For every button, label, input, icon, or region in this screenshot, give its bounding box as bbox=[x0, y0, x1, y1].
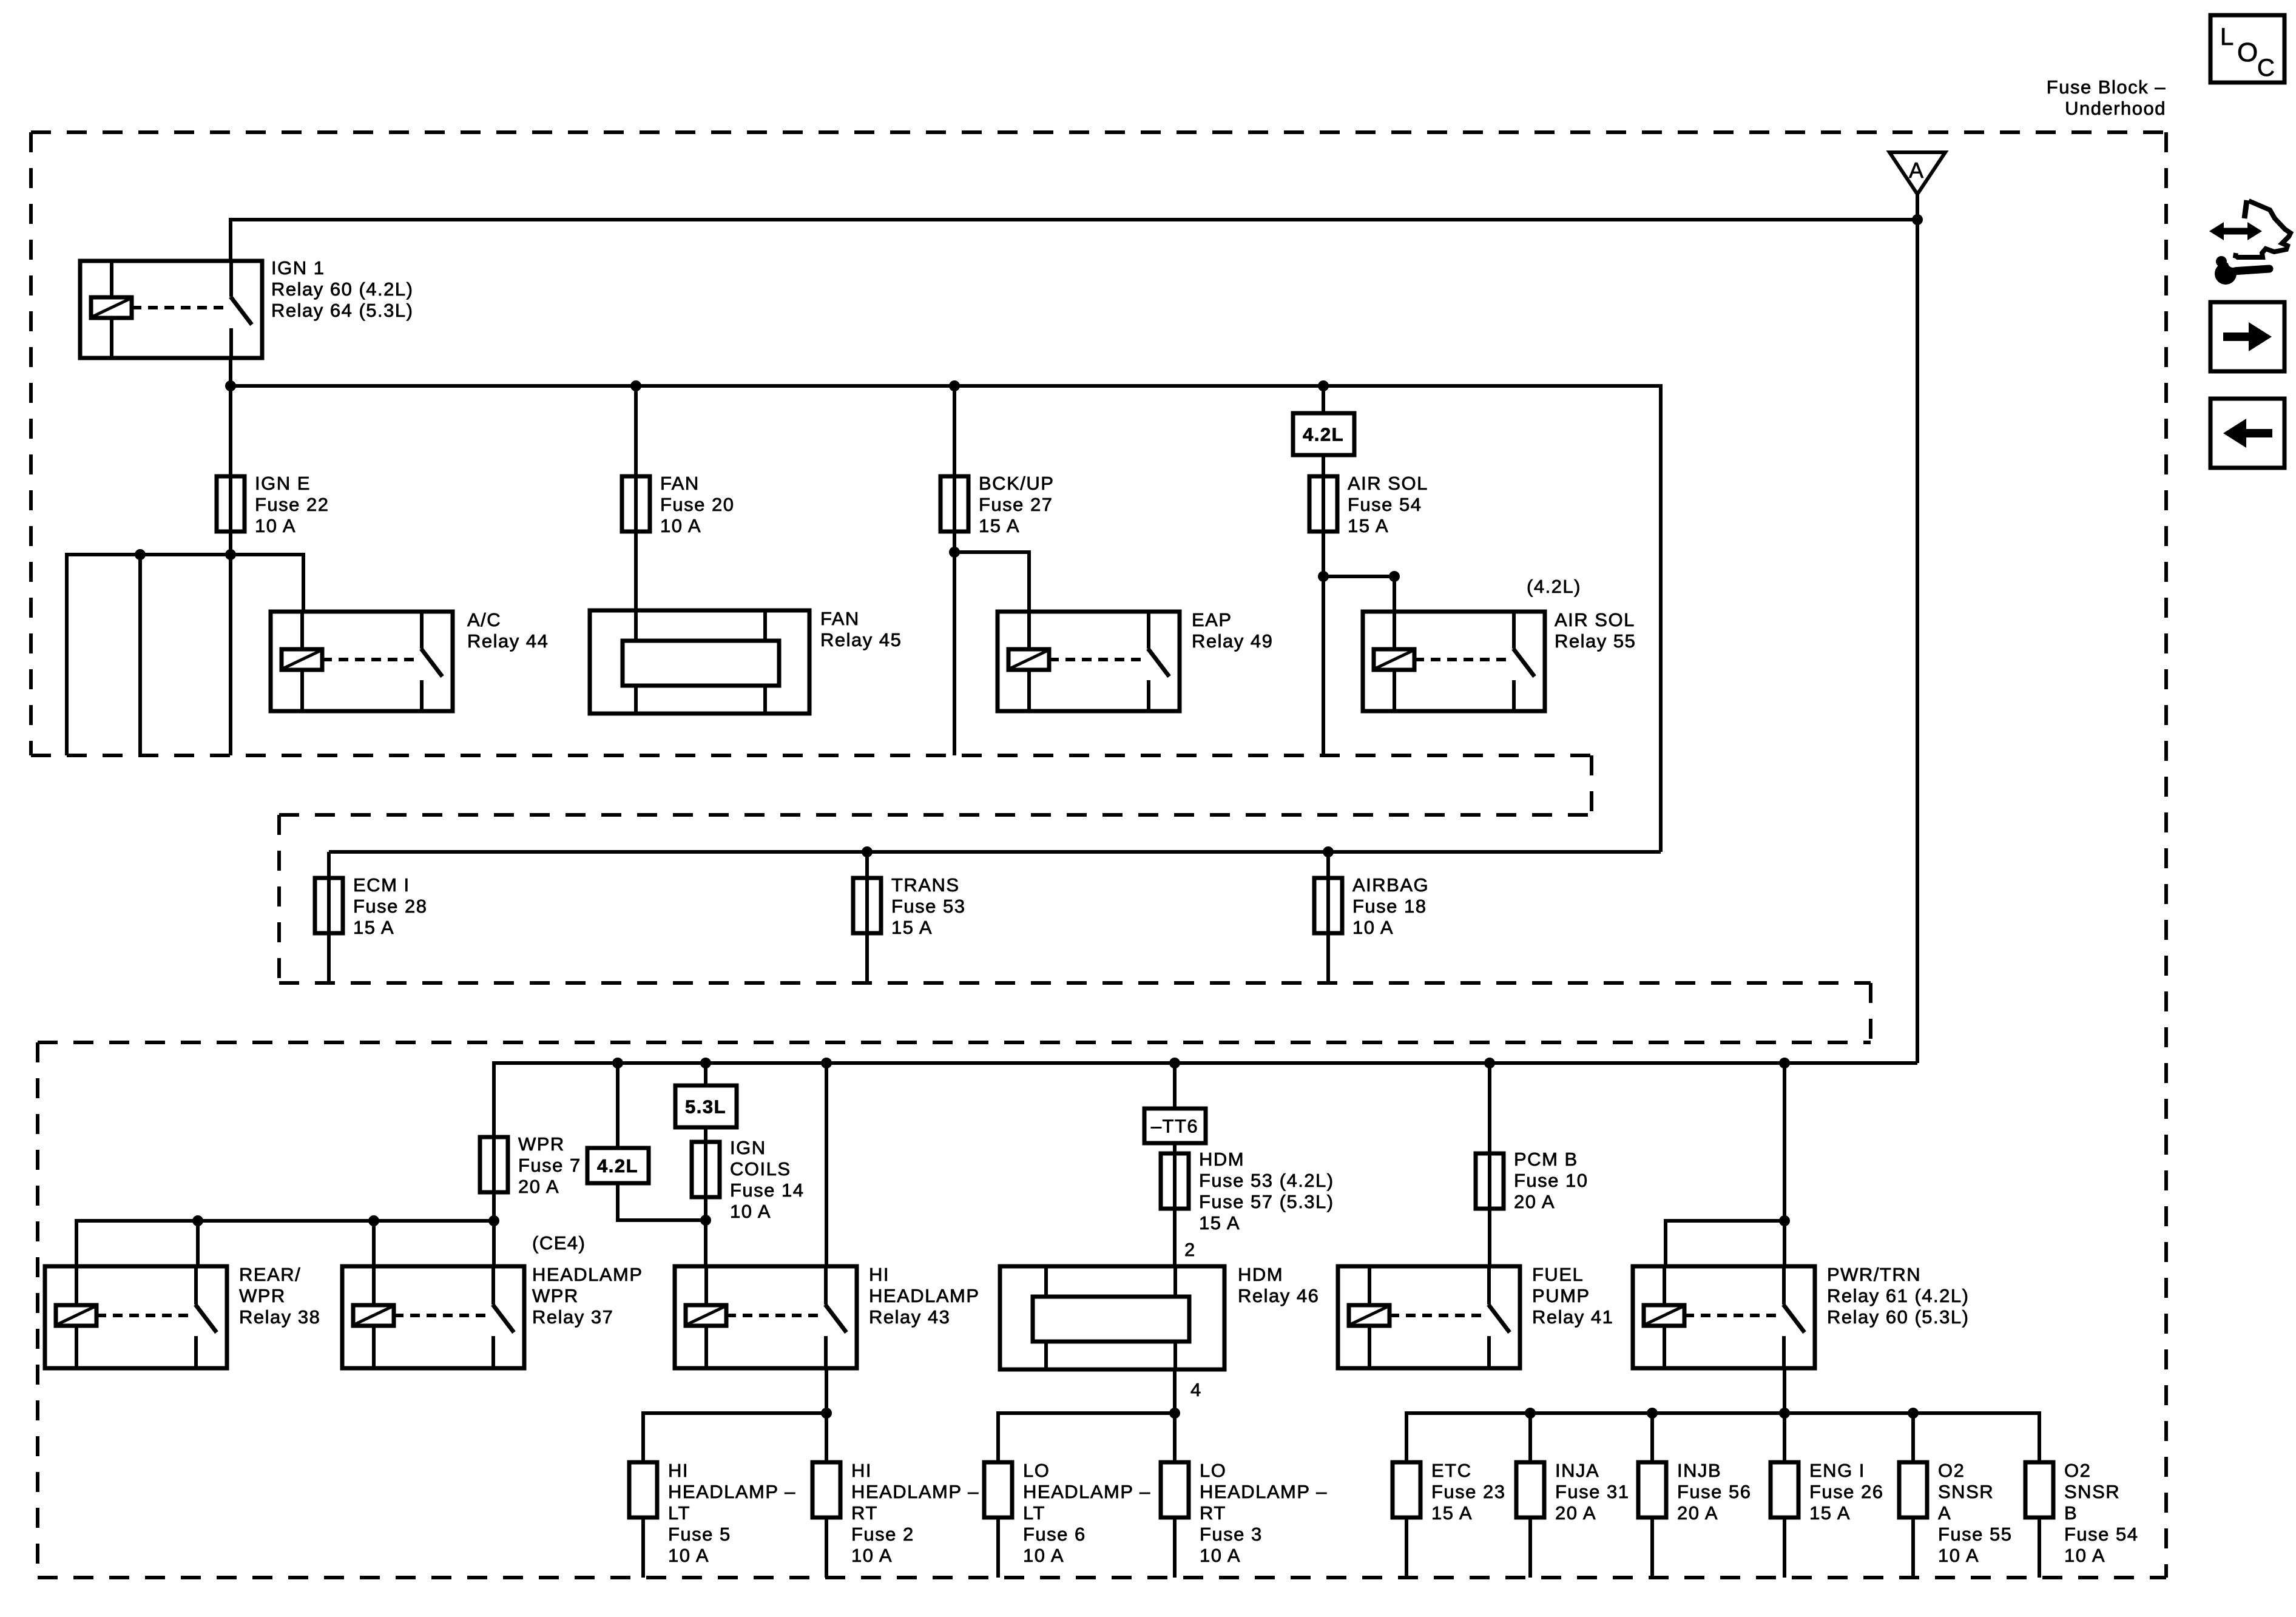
wire to relay38 switch bbox=[196, 1221, 200, 1266]
svg-text:Relay 55: Relay 55 bbox=[1555, 630, 1636, 652]
svg-text:WPR: WPR bbox=[532, 1285, 579, 1306]
fuse HI HEADLAMP-RT Fuse 2 bbox=[812, 1462, 840, 1517]
svg-text:15 A: 15 A bbox=[979, 515, 1020, 536]
wire O2B stub bbox=[2038, 1517, 2041, 1578]
wire IGN COILS to relay43 coil bbox=[704, 1220, 707, 1266]
svg-text:HI: HI bbox=[851, 1460, 872, 1481]
svg-text:C: C bbox=[2257, 55, 2275, 81]
svg-text:15 A: 15 A bbox=[1431, 1502, 1473, 1524]
wire riser INJB bbox=[1650, 1413, 1654, 1462]
svg-text:AIR SOL: AIR SOL bbox=[1348, 473, 1428, 494]
junction rail5 ENG I bbox=[1779, 1408, 1790, 1419]
wire main right vertical from triangle A down to lower bus bbox=[1916, 194, 1919, 1063]
svg-text:20 A: 20 A bbox=[1555, 1502, 1596, 1524]
label box 5.3L bbox=[675, 1085, 737, 1127]
junction AIR SOL coil corner bbox=[1389, 571, 1400, 582]
LOC logo box bbox=[2210, 15, 2284, 83]
svg-text:10 A: 10 A bbox=[668, 1545, 709, 1566]
wire riser PWR/TRN switch bbox=[1783, 1063, 1786, 1266]
svg-text:ETC: ETC bbox=[1431, 1460, 1472, 1481]
svg-text:Fuse 6: Fuse 6 bbox=[1023, 1524, 1086, 1545]
fuse block underhood dashed border (upper box) bbox=[31, 130, 2166, 134]
svg-text:Fuse 14: Fuse 14 bbox=[730, 1180, 805, 1201]
wire AIR SOL stub to border bbox=[1322, 576, 1325, 755]
junction comb stub 1 bbox=[135, 549, 146, 560]
svg-text:4: 4 bbox=[1190, 1379, 1202, 1400]
svg-text:(CE4): (CE4) bbox=[532, 1232, 586, 1254]
wire riser PCM B bbox=[1488, 1063, 1491, 1266]
wire riser ECM I bbox=[327, 852, 331, 983]
svg-text:INJA: INJA bbox=[1555, 1460, 1599, 1481]
junction rail3 / 4.2L riser bbox=[612, 1058, 623, 1068]
svg-text:20 A: 20 A bbox=[518, 1176, 559, 1197]
svg-text:Fuse 22: Fuse 22 bbox=[255, 494, 329, 515]
wire riser FAN bbox=[634, 386, 638, 612]
relay IGN1 (Relay 60/64) bbox=[80, 261, 262, 358]
svg-text:10 A: 10 A bbox=[1023, 1545, 1064, 1566]
wire riser INJA bbox=[1528, 1413, 1532, 1462]
svg-text:Underhood: Underhood bbox=[2065, 98, 2166, 119]
fuse LO HEADLAMP-LT Fuse 6 bbox=[984, 1462, 1012, 1517]
wire 4.2L elbow to IGN COILS column bbox=[618, 1183, 706, 1220]
wire to relay37 coil bbox=[372, 1221, 376, 1266]
svg-text:Relay 43: Relay 43 bbox=[869, 1306, 950, 1328]
wire PWR/TRN coil feed bbox=[1666, 1221, 1784, 1266]
wire BCK/UP stub to border bbox=[953, 552, 956, 755]
svg-text:HEADLAMP –: HEADLAMP – bbox=[1200, 1481, 1328, 1502]
svg-text:HDM: HDM bbox=[1238, 1264, 1283, 1285]
svg-text:WPR: WPR bbox=[518, 1133, 565, 1155]
relay A/C Relay 44 bbox=[271, 612, 453, 711]
wire bus rail3 bbox=[494, 1063, 1917, 1221]
fuse HDM Fuse 53/57 bbox=[1161, 1153, 1189, 1209]
wire middle feeder bbox=[329, 850, 1661, 854]
fuse ETC Fuse 23 bbox=[1393, 1462, 1420, 1517]
fuse PCM B Fuse 10 bbox=[1476, 1153, 1504, 1209]
relay HDM Relay 46 (element) bbox=[1000, 1266, 1224, 1369]
svg-text:Fuse 27: Fuse 27 bbox=[979, 494, 1053, 515]
wire ENG I stub bbox=[1783, 1517, 1786, 1578]
junction IGN COILS / 4.2L elbow bbox=[700, 1215, 711, 1226]
wire riser IGN COILS mid bbox=[704, 1127, 707, 1220]
service info icon (arrow + hood + wrench) bbox=[2244, 200, 2247, 218]
svg-text:A: A bbox=[1909, 158, 1925, 183]
svg-text:PUMP: PUMP bbox=[1532, 1285, 1590, 1306]
wire riser HDM upper bbox=[1173, 1063, 1177, 1109]
svg-text:10 A: 10 A bbox=[255, 515, 296, 536]
svg-text:IGN E: IGN E bbox=[255, 473, 311, 494]
dashed border (lower box) bbox=[38, 1041, 1871, 1044]
svg-text:10 A: 10 A bbox=[2064, 1545, 2105, 1566]
svg-text:15 A: 15 A bbox=[1809, 1502, 1851, 1524]
wire HI-RT stub bbox=[825, 1517, 828, 1578]
junction rail5 O2A bbox=[1908, 1408, 1919, 1419]
svg-text:SNSR: SNSR bbox=[2064, 1481, 2120, 1502]
wire riser O2A bbox=[1911, 1413, 1915, 1462]
wire ETC stub bbox=[1405, 1517, 1408, 1578]
junction rail2 / AIR SOL riser bbox=[1318, 380, 1329, 391]
wire IGN1 switch output to bus rail2 bbox=[229, 358, 232, 386]
svg-text:4.2L: 4.2L bbox=[597, 1155, 638, 1176]
connector triangle A bbox=[1889, 152, 1945, 194]
wire BCK/UP to EAP coil bbox=[954, 552, 1029, 612]
wire AIR SOL to relay coil bbox=[1323, 576, 1394, 612]
wire riser HDM mid bbox=[1173, 1143, 1177, 1266]
svg-text:Fuse 54: Fuse 54 bbox=[1348, 494, 1422, 515]
svg-text:LT: LT bbox=[1023, 1502, 1045, 1524]
fuse IGN COILS Fuse 14 bbox=[692, 1142, 720, 1197]
junction rail1 / right vertical bbox=[1912, 214, 1923, 225]
wire relay43 output bbox=[825, 1368, 828, 1462]
fuse AIRBAG Fuse 18 bbox=[1314, 878, 1342, 933]
svg-text:–TT6: –TT6 bbox=[1151, 1116, 1198, 1137]
svg-text:BCK/UP: BCK/UP bbox=[979, 473, 1054, 494]
svg-text:5.3L: 5.3L bbox=[685, 1096, 726, 1118]
svg-text:INJB: INJB bbox=[1677, 1460, 1721, 1481]
svg-text:Fuse 53 (4.2L): Fuse 53 (4.2L) bbox=[1199, 1170, 1334, 1191]
svg-text:AIR SOL: AIR SOL bbox=[1555, 609, 1635, 630]
svg-text:10 A: 10 A bbox=[851, 1545, 893, 1566]
svg-text:Fuse 3: Fuse 3 bbox=[1200, 1524, 1263, 1545]
wire riser BCK/UP bbox=[953, 386, 956, 552]
svg-text:Relay 60 (4.2L): Relay 60 (4.2L) bbox=[271, 279, 413, 300]
fuse BCK/UP Fuse 27 bbox=[940, 476, 968, 532]
svg-text:Fuse Block –: Fuse Block – bbox=[2047, 76, 2166, 98]
wire engine fuse rail bbox=[1406, 1413, 2039, 1462]
junction rail3 / HDM riser bbox=[1169, 1058, 1180, 1068]
svg-text:HEADLAMP: HEADLAMP bbox=[869, 1285, 980, 1306]
junction TRANS riser bbox=[862, 846, 873, 857]
svg-text:Relay 41: Relay 41 bbox=[1532, 1306, 1613, 1328]
svg-text:L: L bbox=[2220, 24, 2235, 50]
wire riser TRANS bbox=[865, 852, 869, 983]
svg-text:Relay 61 (4.2L): Relay 61 (4.2L) bbox=[1827, 1285, 1969, 1306]
svg-text:B: B bbox=[2064, 1502, 2078, 1524]
wire LO headlamp rail bbox=[998, 1413, 1175, 1462]
junction rail5 INJA bbox=[1525, 1408, 1536, 1419]
svg-text:20 A: 20 A bbox=[1677, 1502, 1718, 1524]
svg-text:10 A: 10 A bbox=[1352, 917, 1394, 938]
svg-text:(4.2L): (4.2L) bbox=[1527, 576, 1581, 597]
label box -TT6 bbox=[1144, 1109, 1206, 1143]
junction rail2 / FAN riser bbox=[630, 380, 641, 391]
svg-text:10 A: 10 A bbox=[1200, 1545, 1241, 1566]
wire riser IGN E bbox=[229, 386, 232, 555]
svg-text:Fuse 56: Fuse 56 bbox=[1677, 1481, 1752, 1502]
svg-text:4.2L: 4.2L bbox=[1303, 424, 1344, 445]
wire riser 4.2L upper bbox=[616, 1063, 620, 1148]
back arrow box bbox=[2210, 399, 2284, 468]
fuse WPR Fuse 7 bbox=[480, 1137, 508, 1192]
junction IGN E / comb bbox=[225, 549, 236, 560]
fuse IGN E Fuse 22 bbox=[217, 476, 245, 532]
svg-text:Relay 37: Relay 37 bbox=[532, 1306, 613, 1328]
wire INJA stub bbox=[1528, 1517, 1532, 1578]
wire relay60 output bbox=[1783, 1368, 1786, 1462]
junction feed / relay38 switch bbox=[192, 1215, 203, 1226]
svg-text:HI: HI bbox=[668, 1460, 689, 1481]
fuse AIR SOL Fuse 54 bbox=[1309, 476, 1337, 532]
svg-text:A/C: A/C bbox=[467, 609, 501, 630]
svg-text:IGN: IGN bbox=[730, 1137, 766, 1158]
svg-text:RT: RT bbox=[851, 1502, 878, 1524]
junction LO rail bbox=[1169, 1408, 1180, 1419]
junction rail3 / relay43 switch riser bbox=[821, 1058, 832, 1068]
svg-text:COILS: COILS bbox=[730, 1158, 791, 1180]
svg-text:HEADLAMP –: HEADLAMP – bbox=[1023, 1481, 1151, 1502]
fuse ENG I Fuse 26 bbox=[1771, 1462, 1798, 1517]
fuse TRANS Fuse 53 bbox=[853, 878, 881, 933]
svg-text:Relay 38: Relay 38 bbox=[239, 1306, 320, 1328]
svg-text:LO: LO bbox=[1200, 1460, 1226, 1481]
svg-text:Fuse 18: Fuse 18 bbox=[1352, 896, 1427, 917]
fuse INJA Fuse 31 bbox=[1516, 1462, 1544, 1517]
junction rail3 / PWR-TRN riser bbox=[1779, 1058, 1790, 1068]
relay HI HEADLAMP Relay 43 bbox=[675, 1266, 857, 1368]
svg-text:Fuse 53: Fuse 53 bbox=[891, 896, 966, 917]
label box 4.2L (IGN COILS) bbox=[587, 1148, 649, 1183]
svg-text:O2: O2 bbox=[1938, 1460, 1965, 1481]
svg-text:REAR/: REAR/ bbox=[239, 1264, 301, 1285]
svg-text:Relay 60 (5.3L): Relay 60 (5.3L) bbox=[1827, 1306, 1969, 1328]
wire HI headlamp rail bbox=[643, 1413, 826, 1462]
svg-text:EAP: EAP bbox=[1192, 609, 1232, 630]
junction AIR SOL output bbox=[1318, 571, 1329, 582]
wire INJB stub bbox=[1650, 1517, 1654, 1578]
svg-text:Relay 44: Relay 44 bbox=[467, 630, 549, 652]
svg-text:15 A: 15 A bbox=[1348, 515, 1389, 536]
wire bus rail2 bbox=[231, 386, 1661, 852]
svg-text:Relay 46: Relay 46 bbox=[1238, 1285, 1319, 1306]
svg-text:20 A: 20 A bbox=[1514, 1191, 1555, 1212]
junction HI rail bbox=[821, 1408, 832, 1419]
relay HEADLAMP WPR Relay 37 bbox=[342, 1266, 524, 1368]
junction feed / relay37 coil bbox=[368, 1215, 379, 1226]
svg-text:HEADLAMP –: HEADLAMP – bbox=[668, 1481, 796, 1502]
wire WPR to relay37 switch bbox=[492, 1221, 496, 1266]
junction rail3 / IGN COILS riser bbox=[700, 1058, 711, 1068]
svg-text:Fuse 5: Fuse 5 bbox=[668, 1524, 731, 1545]
label box 4.2L (AIR SOL) bbox=[1293, 413, 1354, 455]
svg-text:Fuse 54: Fuse 54 bbox=[2064, 1524, 2139, 1545]
wire comb below IGN E bbox=[67, 555, 303, 755]
svg-text:HEADLAMP: HEADLAMP bbox=[532, 1264, 643, 1285]
dashed border (middle box) bbox=[279, 813, 1592, 817]
relay EAP Relay 49 bbox=[998, 612, 1180, 711]
wire O2A stub bbox=[1911, 1517, 1915, 1578]
svg-text:PCM B: PCM B bbox=[1514, 1149, 1578, 1170]
svg-text:Fuse 7: Fuse 7 bbox=[518, 1155, 581, 1176]
svg-text:RT: RT bbox=[1200, 1502, 1226, 1524]
fuse INJB Fuse 56 bbox=[1638, 1462, 1666, 1517]
svg-text:Fuse 57 (5.3L): Fuse 57 (5.3L) bbox=[1199, 1191, 1334, 1212]
svg-text:LO: LO bbox=[1023, 1460, 1050, 1481]
svg-text:15 A: 15 A bbox=[1199, 1212, 1240, 1234]
svg-text:PWR/TRN: PWR/TRN bbox=[1827, 1264, 1921, 1285]
svg-text:O: O bbox=[2237, 38, 2259, 67]
wire riser AIR SOL upper bbox=[1322, 386, 1325, 413]
svg-text:WPR: WPR bbox=[239, 1285, 286, 1306]
svg-text:AIRBAG: AIRBAG bbox=[1352, 874, 1429, 896]
svg-text:15 A: 15 A bbox=[353, 917, 394, 938]
svg-text:Fuse 20: Fuse 20 bbox=[660, 494, 735, 515]
svg-text:FUEL: FUEL bbox=[1532, 1264, 1584, 1285]
svg-text:10 A: 10 A bbox=[1938, 1545, 1979, 1566]
wire relay37/38 feed line bbox=[76, 1221, 494, 1266]
wire LO-RT stub bbox=[1173, 1517, 1177, 1578]
svg-text:Relay 49: Relay 49 bbox=[1192, 630, 1273, 652]
relay REAR/WPR Relay 38 bbox=[45, 1266, 227, 1368]
svg-text:FAN: FAN bbox=[660, 473, 700, 494]
svg-text:10 A: 10 A bbox=[730, 1201, 771, 1222]
svg-text:HEADLAMP –: HEADLAMP – bbox=[851, 1481, 979, 1502]
relay PWR/TRN Relay 61/60 bbox=[1633, 1266, 1815, 1368]
svg-text:Fuse 28: Fuse 28 bbox=[353, 896, 428, 917]
junction IGN1 output / rail2 bbox=[225, 380, 236, 391]
svg-text:A: A bbox=[1938, 1502, 1951, 1524]
fuse O2 SNSR A Fuse 55 bbox=[1899, 1462, 1927, 1517]
svg-text:O2: O2 bbox=[2064, 1460, 2091, 1481]
svg-text:Fuse 2: Fuse 2 bbox=[851, 1524, 914, 1545]
wire riser AIRBAG bbox=[1326, 852, 1330, 983]
svg-text:TRANS: TRANS bbox=[891, 874, 960, 896]
fuse HI HEADLAMP-LT Fuse 5 bbox=[629, 1462, 657, 1517]
svg-text:Fuse 23: Fuse 23 bbox=[1431, 1481, 1506, 1502]
fuse FAN Fuse 20 bbox=[622, 476, 650, 532]
svg-text:IGN 1: IGN 1 bbox=[271, 257, 325, 279]
junction rail3 / PCM B riser bbox=[1484, 1058, 1495, 1068]
junction rail2 / BCK-UP riser bbox=[949, 380, 960, 391]
svg-text:FAN: FAN bbox=[820, 608, 860, 629]
junction AIRBAG riser bbox=[1323, 846, 1334, 857]
svg-text:ENG I: ENG I bbox=[1809, 1460, 1865, 1481]
wire HI-LT stub bbox=[641, 1517, 645, 1578]
relay FUEL PUMP Relay 41 bbox=[1338, 1266, 1520, 1368]
relay AIR SOL Relay 55 bbox=[1363, 612, 1545, 711]
junction BCK/UP output bbox=[949, 547, 960, 558]
wire rail1 from IGN1 relay to triangle A bbox=[231, 220, 1917, 261]
svg-text:HI: HI bbox=[869, 1264, 890, 1285]
svg-text:15 A: 15 A bbox=[891, 917, 933, 938]
junction rail5 INJB bbox=[1647, 1408, 1658, 1419]
svg-text:Fuse 55: Fuse 55 bbox=[1938, 1524, 2013, 1545]
wire relay46 output bbox=[1173, 1369, 1177, 1462]
svg-text:2: 2 bbox=[1184, 1239, 1196, 1260]
fuse LO HEADLAMP-RT Fuse 3 bbox=[1161, 1462, 1189, 1517]
svg-text:HDM: HDM bbox=[1199, 1149, 1244, 1170]
wire riser AIR SOL lower bbox=[1322, 455, 1325, 576]
svg-text:SNSR: SNSR bbox=[1938, 1481, 1994, 1502]
svg-text:Relay 64 (5.3L): Relay 64 (5.3L) bbox=[271, 300, 413, 321]
fuse ECM I Fuse 28 bbox=[315, 878, 343, 933]
forward arrow box bbox=[2210, 302, 2284, 371]
junction PWR-TRN coil tap bbox=[1779, 1215, 1790, 1226]
svg-text:10 A: 10 A bbox=[660, 515, 701, 536]
fuse O2 SNSR B Fuse 54 bbox=[2025, 1462, 2053, 1517]
svg-text:Fuse 26: Fuse 26 bbox=[1809, 1481, 1884, 1502]
junction WPR output bbox=[488, 1215, 499, 1226]
wire LO-LT stub bbox=[996, 1517, 1000, 1578]
svg-text:LT: LT bbox=[668, 1502, 690, 1524]
relay FAN Relay 45 (element) bbox=[590, 610, 809, 714]
svg-text:Fuse 31: Fuse 31 bbox=[1555, 1481, 1630, 1502]
svg-text:Fuse 10: Fuse 10 bbox=[1514, 1170, 1589, 1191]
wire riser IGN COILS upper bbox=[704, 1063, 707, 1085]
svg-text:ECM I: ECM I bbox=[353, 874, 410, 896]
wire riser relay43 switch bbox=[825, 1063, 828, 1266]
svg-text:Relay 45: Relay 45 bbox=[820, 629, 902, 650]
